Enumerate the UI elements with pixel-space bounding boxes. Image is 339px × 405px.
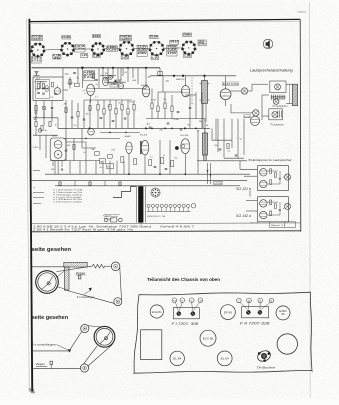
speaker caption 2 xyxy=(270,124,284,127)
resistor bank R4 xyxy=(97,105,99,111)
bus drop wire x63 xyxy=(62,68,64,77)
page number text top right xyxy=(297,10,307,14)
capacitor C21 xyxy=(95,79,98,80)
pin circle c xyxy=(189,298,194,303)
right page edge line xyxy=(309,2,312,398)
value boxes right of V4 xyxy=(137,45,148,51)
V16 label xyxy=(180,135,189,137)
value text d1 xyxy=(64,103,67,105)
value text 240 xyxy=(34,112,38,114)
mid bus dots2 xyxy=(151,127,197,129)
resistor R3 xyxy=(35,106,37,112)
output jack J2 xyxy=(253,110,259,116)
dial2 cord pulley-drum xyxy=(88,326,100,327)
FM tuner box outline xyxy=(33,77,63,101)
value text g3 xyxy=(112,148,116,151)
SO121 input wires xyxy=(240,161,257,176)
heater wire V4-V5 xyxy=(133,48,150,50)
SO121 label xyxy=(236,187,251,191)
capacitor C9 xyxy=(189,107,192,108)
wire h y92 xyxy=(158,91,183,93)
dial1 caption 3x xyxy=(77,295,95,299)
magic eye label xyxy=(51,136,57,138)
wire connect T3 top xyxy=(204,128,206,133)
wire h y140 right xyxy=(212,139,232,141)
tube socket V3 label xyxy=(92,34,100,37)
left border bottom hatching xyxy=(29,388,35,393)
value text e1 xyxy=(147,124,151,126)
dial2 pulley bottom xyxy=(80,364,88,372)
value text i3 xyxy=(166,81,170,83)
AF wire drops xyxy=(70,161,80,175)
value text e2 xyxy=(160,130,164,132)
value text c1 xyxy=(34,119,38,121)
value text e3 xyxy=(174,119,179,121)
left page border thin line xyxy=(27,19,30,392)
coil L1 xyxy=(45,86,48,92)
tube socket V3 xyxy=(91,42,105,56)
long bus y180 xyxy=(32,180,248,182)
SO142 box outline xyxy=(257,197,288,222)
SO121 resistor Ra xyxy=(270,169,272,174)
legend block rows xyxy=(56,189,83,204)
tube EL84a topview xyxy=(170,351,184,365)
capacitor C10 xyxy=(154,166,157,167)
bus drop wire x82 xyxy=(81,68,83,88)
bus drop wire x163 xyxy=(162,76,164,92)
tuner label blob xyxy=(34,82,45,84)
trimmer capacitor C3 xyxy=(42,106,46,110)
value text g1 xyxy=(92,148,95,151)
wire h y160 right xyxy=(197,160,247,162)
SO142 label xyxy=(236,214,251,218)
value text a3 xyxy=(68,83,73,85)
dial2 zeiger pointer xyxy=(50,361,53,369)
schematic top frame thin line xyxy=(29,21,300,23)
wire drop r4 xyxy=(97,100,99,128)
filter FI contact b xyxy=(191,312,195,316)
capacitor C30 xyxy=(219,149,222,150)
resistor R24 xyxy=(49,122,51,127)
terminal box TB2 xyxy=(107,163,114,168)
junction on mid bus xyxy=(89,127,187,129)
legend tick marks xyxy=(53,190,55,202)
node dot E xyxy=(114,80,116,82)
capacitor C26 xyxy=(83,119,86,120)
value blob near V9 xyxy=(110,82,118,87)
IF transformer T1 xyxy=(202,81,208,104)
wire drop c-r13 xyxy=(164,92,166,119)
footer text row 2 xyxy=(33,228,134,231)
speaker symbol xyxy=(263,39,273,49)
resistor R28 xyxy=(227,144,229,149)
value text f3 xyxy=(240,138,243,140)
SO121 tube A xyxy=(260,169,267,176)
footer mid text xyxy=(160,225,196,228)
magic eye circle top xyxy=(54,141,62,149)
filter FII label xyxy=(240,322,270,326)
value text e4 xyxy=(188,125,191,127)
heater wire V1-V2 xyxy=(44,48,61,51)
TA-Buchse socket xyxy=(256,349,272,363)
bus drop wire x225 xyxy=(225,76,227,89)
pin circle d xyxy=(198,298,203,303)
dial1 pulley top xyxy=(111,262,120,271)
rotary switch wafer xyxy=(151,188,160,197)
screen dashed line xyxy=(191,77,193,102)
value text g2 xyxy=(100,167,104,169)
dial1 pulley bottom xyxy=(114,298,122,306)
dial2 pulley top xyxy=(81,324,89,332)
value text e5 xyxy=(199,121,202,123)
wire v x78b xyxy=(77,103,79,128)
filter FI box xyxy=(173,308,199,319)
filter FII box xyxy=(242,307,269,318)
value text l2 xyxy=(197,131,199,133)
capacitor C22 xyxy=(105,78,108,79)
footer text row 1 xyxy=(33,225,153,228)
value text b4 xyxy=(133,80,137,82)
resistor bank R10 xyxy=(133,105,135,111)
hang ticks y180 xyxy=(60,181,120,186)
dial2 wire bottom xyxy=(32,368,81,370)
SO142 resistor Ra xyxy=(270,200,272,205)
filter FI contact a xyxy=(177,312,181,316)
tube socket V4 label xyxy=(120,35,132,41)
output tube V12 label xyxy=(222,82,239,86)
resistor R1 xyxy=(37,84,39,90)
tube EABC80 topview xyxy=(276,306,290,320)
value text cluster 1 xyxy=(95,97,134,109)
junction circle node D xyxy=(109,76,113,80)
SO121 resistor Rc xyxy=(270,180,272,185)
grid verticals area7 xyxy=(96,161,124,175)
socket row blob c5 below xyxy=(151,56,159,60)
elko can circle xyxy=(277,334,297,354)
value text a5 xyxy=(96,84,99,86)
wire speaker junctions xyxy=(262,95,269,120)
SO142 jack xyxy=(284,203,290,209)
tube socket V2 label xyxy=(62,36,71,39)
value text h1 xyxy=(33,147,40,149)
value box below right of V2 xyxy=(81,53,88,57)
wire drop x196 xyxy=(195,92,197,119)
tube drop wires af xyxy=(129,154,185,175)
wire h y88 xyxy=(93,88,146,90)
FM tuner inner screen box xyxy=(35,80,49,99)
mixer tube V8 xyxy=(87,84,95,103)
bus drop wire x121 xyxy=(120,68,122,80)
dial2 cord knot-pulley xyxy=(70,331,82,350)
clutter wires area2 verticals xyxy=(0,0,1,1)
value text d2 xyxy=(74,125,78,127)
rail junction dots xyxy=(173,75,206,77)
pin circle e xyxy=(258,298,263,303)
wire h y148 left xyxy=(82,147,96,149)
resistor R30 xyxy=(73,145,75,150)
wire jack J1 right xyxy=(248,84,268,91)
tube socket V1 label xyxy=(32,35,43,41)
capacitor C1 xyxy=(37,92,40,93)
antenna symbol xyxy=(34,71,40,75)
value box left of V6 xyxy=(170,40,179,44)
contact row xyxy=(147,204,190,211)
wires af verticals xyxy=(160,119,205,175)
AF tube V15 xyxy=(141,140,149,155)
resistor R20 xyxy=(69,80,71,85)
speaker transformer TR1 frame xyxy=(270,81,286,92)
grid verticals area4 xyxy=(66,100,90,128)
wire y112 to J2 xyxy=(231,104,253,113)
value text f2 xyxy=(228,151,232,153)
value boxes right of V5 xyxy=(167,45,178,51)
SO121 box outline xyxy=(257,165,288,190)
wire h y95 det xyxy=(185,94,196,96)
component box g2 xyxy=(108,155,113,159)
SO142 resistor Rb xyxy=(274,204,276,209)
capacitor C32 xyxy=(65,150,68,151)
wire below tuner xyxy=(33,117,58,119)
dial1 cord spring to pulley xyxy=(105,265,111,267)
small box row b1 xyxy=(121,157,124,163)
heater wire V5-V6 xyxy=(163,47,182,50)
T3 drop wires xyxy=(204,155,207,161)
bus drop wire x146 xyxy=(145,68,147,89)
EM80 drop lines xyxy=(53,161,63,170)
SO142 link wire xyxy=(250,191,257,197)
magic eye EM80 outline xyxy=(50,138,66,161)
resistor R2 xyxy=(42,84,44,90)
capacitor C4 xyxy=(51,107,54,108)
value text cluster 3 xyxy=(150,155,177,160)
resistor bank R5 xyxy=(103,109,105,115)
band switch side line right xyxy=(145,186,147,222)
SO121 wires xyxy=(267,171,284,184)
top mid dots xyxy=(102,67,129,69)
junction dot big xyxy=(175,146,179,150)
output tube V16 xyxy=(181,139,190,154)
wire drop c-r12 xyxy=(157,92,159,119)
small box row b5 xyxy=(171,161,174,167)
driver tube V13 label xyxy=(244,115,251,119)
component box g1 xyxy=(95,152,100,156)
dial2 drum spokes xyxy=(100,332,111,344)
coupling tube V9 xyxy=(118,83,123,88)
T1 side terminals xyxy=(200,84,210,101)
component box a4 xyxy=(75,83,80,86)
pin circle g xyxy=(247,298,252,303)
dial1 zeiger pointer xyxy=(78,276,81,279)
dash area8 xyxy=(33,170,40,172)
dial2 caption 3x xyxy=(32,342,57,346)
tube socket V4 xyxy=(119,41,135,57)
value text k2 xyxy=(84,152,88,154)
value boxes right of V5 low xyxy=(167,51,177,56)
SO121 jack xyxy=(284,174,290,180)
V11 label xyxy=(141,85,149,87)
pin wires FI xyxy=(175,302,199,310)
speaker caption 1 xyxy=(273,105,288,108)
AF tube V14 xyxy=(126,142,132,154)
SO121 resistor Rb xyxy=(274,173,276,178)
value text i1 xyxy=(148,77,152,79)
capacitor C2 xyxy=(42,93,45,94)
tube EL84b topview xyxy=(217,351,232,366)
wire drop r6 xyxy=(109,100,111,128)
schematic right frame line xyxy=(299,19,302,231)
wire h y138 left xyxy=(63,138,120,140)
wire drop r8 xyxy=(121,100,123,128)
pin circle b xyxy=(269,298,274,303)
wire h y160 xyxy=(50,160,100,162)
band switch step wire xyxy=(113,187,137,198)
left margin vertical text xyxy=(30,187,33,212)
filter FII contact a xyxy=(246,310,250,314)
resistor R23 xyxy=(41,126,43,131)
output jack J1 xyxy=(241,88,247,94)
value text k1 xyxy=(67,145,70,147)
contact row rail xyxy=(147,211,191,213)
bus junction node B xyxy=(145,67,147,69)
socket row blob c6 below xyxy=(184,54,192,58)
capacitor C28 xyxy=(167,123,170,124)
dial2 drum xyxy=(94,326,115,347)
small box row b2 xyxy=(134,159,137,165)
bus y174 dots xyxy=(128,173,186,175)
resistor bank R6 xyxy=(109,105,111,111)
IF can rectangle xyxy=(141,330,162,360)
dial1 rail horizontal xyxy=(64,262,87,267)
bus junction node C xyxy=(112,67,114,69)
value box between V3 V4 xyxy=(107,46,118,52)
chassis outline xyxy=(134,292,312,373)
FM label2 xyxy=(36,79,41,81)
dial1 drum spokes xyxy=(41,276,52,289)
V15 shade bar xyxy=(140,141,141,154)
speaker TR2 coil xyxy=(278,111,282,118)
tube socket V1 xyxy=(30,43,45,58)
dial1 cord knot xyxy=(89,288,92,292)
value text a1 xyxy=(65,73,70,75)
footer right label SO xyxy=(250,223,259,225)
wire drop c-r11 xyxy=(151,89,153,119)
dial2 heading xyxy=(32,315,69,321)
long bus y174 xyxy=(45,173,250,175)
wire tuner to mixer xyxy=(58,90,68,128)
detector tube V10 xyxy=(88,129,95,136)
pin circle n xyxy=(180,298,185,303)
capacitor C8 xyxy=(177,111,180,112)
IF tube V11 xyxy=(142,86,150,97)
capacitor C7 xyxy=(124,118,127,119)
wire drop r10 xyxy=(133,100,135,128)
note block rows xyxy=(104,214,120,221)
T1 drop wires xyxy=(203,104,206,129)
value text b2 xyxy=(115,80,119,82)
grid wire x70 xyxy=(66,77,93,89)
SO142 input wires xyxy=(246,201,257,211)
value text c3 xyxy=(55,124,58,126)
output tube V12 xyxy=(220,89,231,106)
wire v area8 xyxy=(40,135,46,158)
tuner wire bottom xyxy=(36,101,52,118)
resistor R22 xyxy=(35,122,37,127)
driver tube V13 xyxy=(250,116,259,125)
wire EM80 drop xyxy=(57,161,59,175)
B+ bus wire xyxy=(32,67,161,69)
left margin dash marks xyxy=(33,193,44,204)
pin wires FII xyxy=(240,302,270,309)
dial2 cord knot xyxy=(68,349,71,352)
speaker TR1 core lines xyxy=(271,97,286,98)
dial2 zeiger label xyxy=(35,362,47,366)
grid blob left of V8 xyxy=(83,90,86,93)
chassis heading xyxy=(147,277,220,282)
contact end circle xyxy=(191,204,195,208)
resistor R25 xyxy=(65,108,67,113)
bus drop wire x185 xyxy=(185,76,187,86)
wire h y75 xyxy=(100,74,116,76)
wire drop r9 xyxy=(127,100,129,128)
TA switch wires xyxy=(207,163,212,184)
pre-footer components xyxy=(103,215,122,222)
wire drop r7 xyxy=(115,100,117,128)
caption TA-Entsperrer xyxy=(248,158,293,162)
dial1 heading xyxy=(32,247,72,253)
capacitor C23 xyxy=(119,80,122,81)
tube socket V5 xyxy=(149,41,165,57)
SO142 tube B xyxy=(260,211,267,218)
dial1 drum xyxy=(36,271,59,294)
dial1 cord to spring xyxy=(56,266,92,271)
dial1 wire from border xyxy=(32,266,64,268)
value text a2 xyxy=(77,78,80,80)
rail link wire xyxy=(159,68,161,76)
tube socket V1 pin table xyxy=(31,57,41,63)
IF transformer T3 xyxy=(202,133,207,155)
speaker transformer TR2 frame xyxy=(269,109,283,120)
mid bus wire y128 xyxy=(58,127,210,129)
dial lamp L1 xyxy=(182,145,185,148)
value boxes right of V4 low xyxy=(137,51,147,56)
hang rects y182 xyxy=(59,182,121,185)
capacitor C20 xyxy=(73,72,76,73)
tube ECC85 topview xyxy=(200,330,216,346)
wire v x55 xyxy=(54,161,56,175)
V8 value blobs xyxy=(84,71,95,81)
dial1 drum hub xyxy=(47,282,50,285)
dial1 caption arrow xyxy=(84,291,90,295)
tube socket V2 xyxy=(60,42,75,57)
wire h y118 xyxy=(146,118,205,120)
speaker second cone xyxy=(273,99,279,105)
T2 wires xyxy=(286,84,292,103)
value box left of V2 xyxy=(53,54,63,60)
schematic top frame line xyxy=(29,19,300,21)
component box i2 xyxy=(158,72,163,76)
tube socket V6 label xyxy=(183,33,192,37)
resistor R21 xyxy=(92,74,94,79)
SO121 capacitor Ca xyxy=(279,178,281,179)
wire EM80 right xyxy=(66,142,86,161)
wire h y135 left xyxy=(33,134,58,136)
detector tube V17 xyxy=(181,86,189,97)
terminal box TB1 xyxy=(99,159,105,164)
resistor R27 xyxy=(89,106,91,111)
filter FI label xyxy=(172,322,199,326)
V15 label xyxy=(140,134,148,136)
value text j1 xyxy=(51,169,54,171)
